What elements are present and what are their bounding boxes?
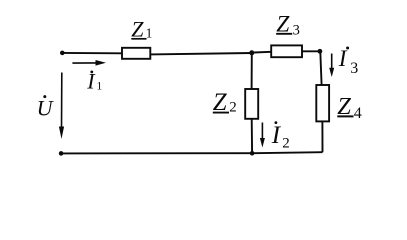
wire Z1 to node B [150,53,252,54]
svg-text:U: U [37,95,55,120]
node A top-left terminal [60,51,65,56]
label Z1 [131,16,152,41]
node E bottom-left terminal [59,151,64,156]
wire Z3 to node C [302,50,320,52]
node C top-right junction [318,49,323,54]
svg-text:Z: Z [131,16,144,41]
label U [37,95,55,120]
svg-text:2: 2 [229,100,237,116]
bottom wire D to right corner [252,152,322,153]
label Z2 [213,89,237,116]
svg-text:1: 1 [97,81,103,93]
resistor Z1 [122,48,150,59]
label I3 [338,46,359,77]
wire B to Z3 [252,51,271,54]
svg-text:2: 2 [282,135,290,151]
label Z4 [337,93,362,122]
bottom wire E to D [61,152,252,154]
label Z3 [276,11,300,38]
wire Z4 down to bottom wire [321,121,323,152]
svg-text:I: I [338,46,348,71]
current arrow I1 [72,60,106,66]
svg-text:I: I [271,122,282,149]
voltage arrow U [59,73,64,140]
current arrow I3 [329,54,334,78]
wire B down to Z2 [251,53,253,89]
svg-text:1: 1 [146,25,153,40]
node B top junction [249,50,254,55]
wire A to Z1 [62,52,122,54]
resistor Z2 [245,89,258,119]
wire C down to Z4 [320,51,321,85]
node D bottom junction [250,151,255,156]
label I2 [271,121,290,151]
wire Z2 to node D [251,119,253,153]
resistor Z3 [271,45,302,57]
current arrow I2 [260,123,265,148]
resistor Z4 [316,85,329,121]
svg-text:4: 4 [354,105,362,122]
svg-text:3: 3 [350,60,358,77]
label I1 [86,69,102,94]
svg-text:3: 3 [293,22,300,38]
